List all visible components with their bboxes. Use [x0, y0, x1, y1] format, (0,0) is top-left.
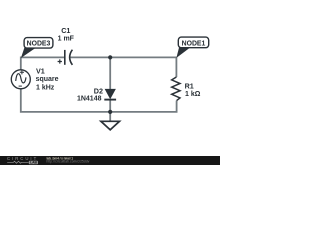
svg-text:1 mF: 1 mF: [58, 36, 75, 43]
svg-text:R1: R1: [185, 81, 194, 90]
capacitor C1 curved plate: [70, 50, 73, 65]
wire ground stem: [109, 112, 111, 121]
voltage source V1 sine glyph: [16, 74, 26, 83]
resistor R1 zigzag: [172, 77, 180, 101]
svg-text:1 kHz: 1 kHz: [36, 84, 55, 91]
diode D2 cathode bar: [104, 99, 116, 101]
node junction bottom (ground tap): [108, 110, 112, 114]
node NODE3 bubble: [24, 38, 53, 49]
wire diode cathode to bottom rail: [109, 100, 111, 112]
capacitor plus mark: [58, 59, 62, 63]
capacitor C1 left plate: [64, 50, 66, 65]
svg-text:square: square: [36, 76, 59, 83]
node NODE1 pointer tail: [176, 45, 190, 58]
voltage source V1 body: [11, 70, 30, 89]
node NODE3 pointer tail: [21, 45, 36, 59]
wire diode anode drop: [109, 57, 111, 89]
wire bottom rail (V1 bottom, along bottom, up to R1 bottom): [21, 89, 177, 112]
watermark logo LAB box: [29, 161, 38, 165]
svg-text:http://circuitlab.com/c/25ddv: http://circuitlab.com/c/25ddv: [47, 160, 90, 164]
svg-text:D2: D2: [94, 86, 103, 95]
svg-text:1 kΩ: 1 kΩ: [185, 91, 201, 98]
svg-text:1N4148: 1N4148: [77, 96, 102, 103]
svg-text:C1: C1: [61, 26, 70, 35]
watermark bar: [0, 156, 220, 165]
svg-text:V1: V1: [36, 67, 45, 76]
diode D2 triangle: [105, 89, 115, 98]
svg-text:LAB: LAB: [30, 161, 38, 165]
node NODE1 bubble: [178, 37, 208, 48]
wire top-right segment (C1 curved plate to NODE1 corner, down to R1 top): [70, 57, 177, 77]
ground symbol: [101, 121, 120, 130]
svg-text:NODE3: NODE3: [27, 41, 51, 48]
svg-text:NODE1: NODE1: [182, 40, 206, 47]
voltage source minus mark: [19, 85, 22, 87]
watermark logo wire glyph: [7, 161, 28, 163]
wire top-left segment (NODE3 corner to C1 left plate): [21, 57, 65, 70]
voltage source plus mark: [20, 70, 24, 74]
node junction top (diode tap): [108, 55, 112, 59]
